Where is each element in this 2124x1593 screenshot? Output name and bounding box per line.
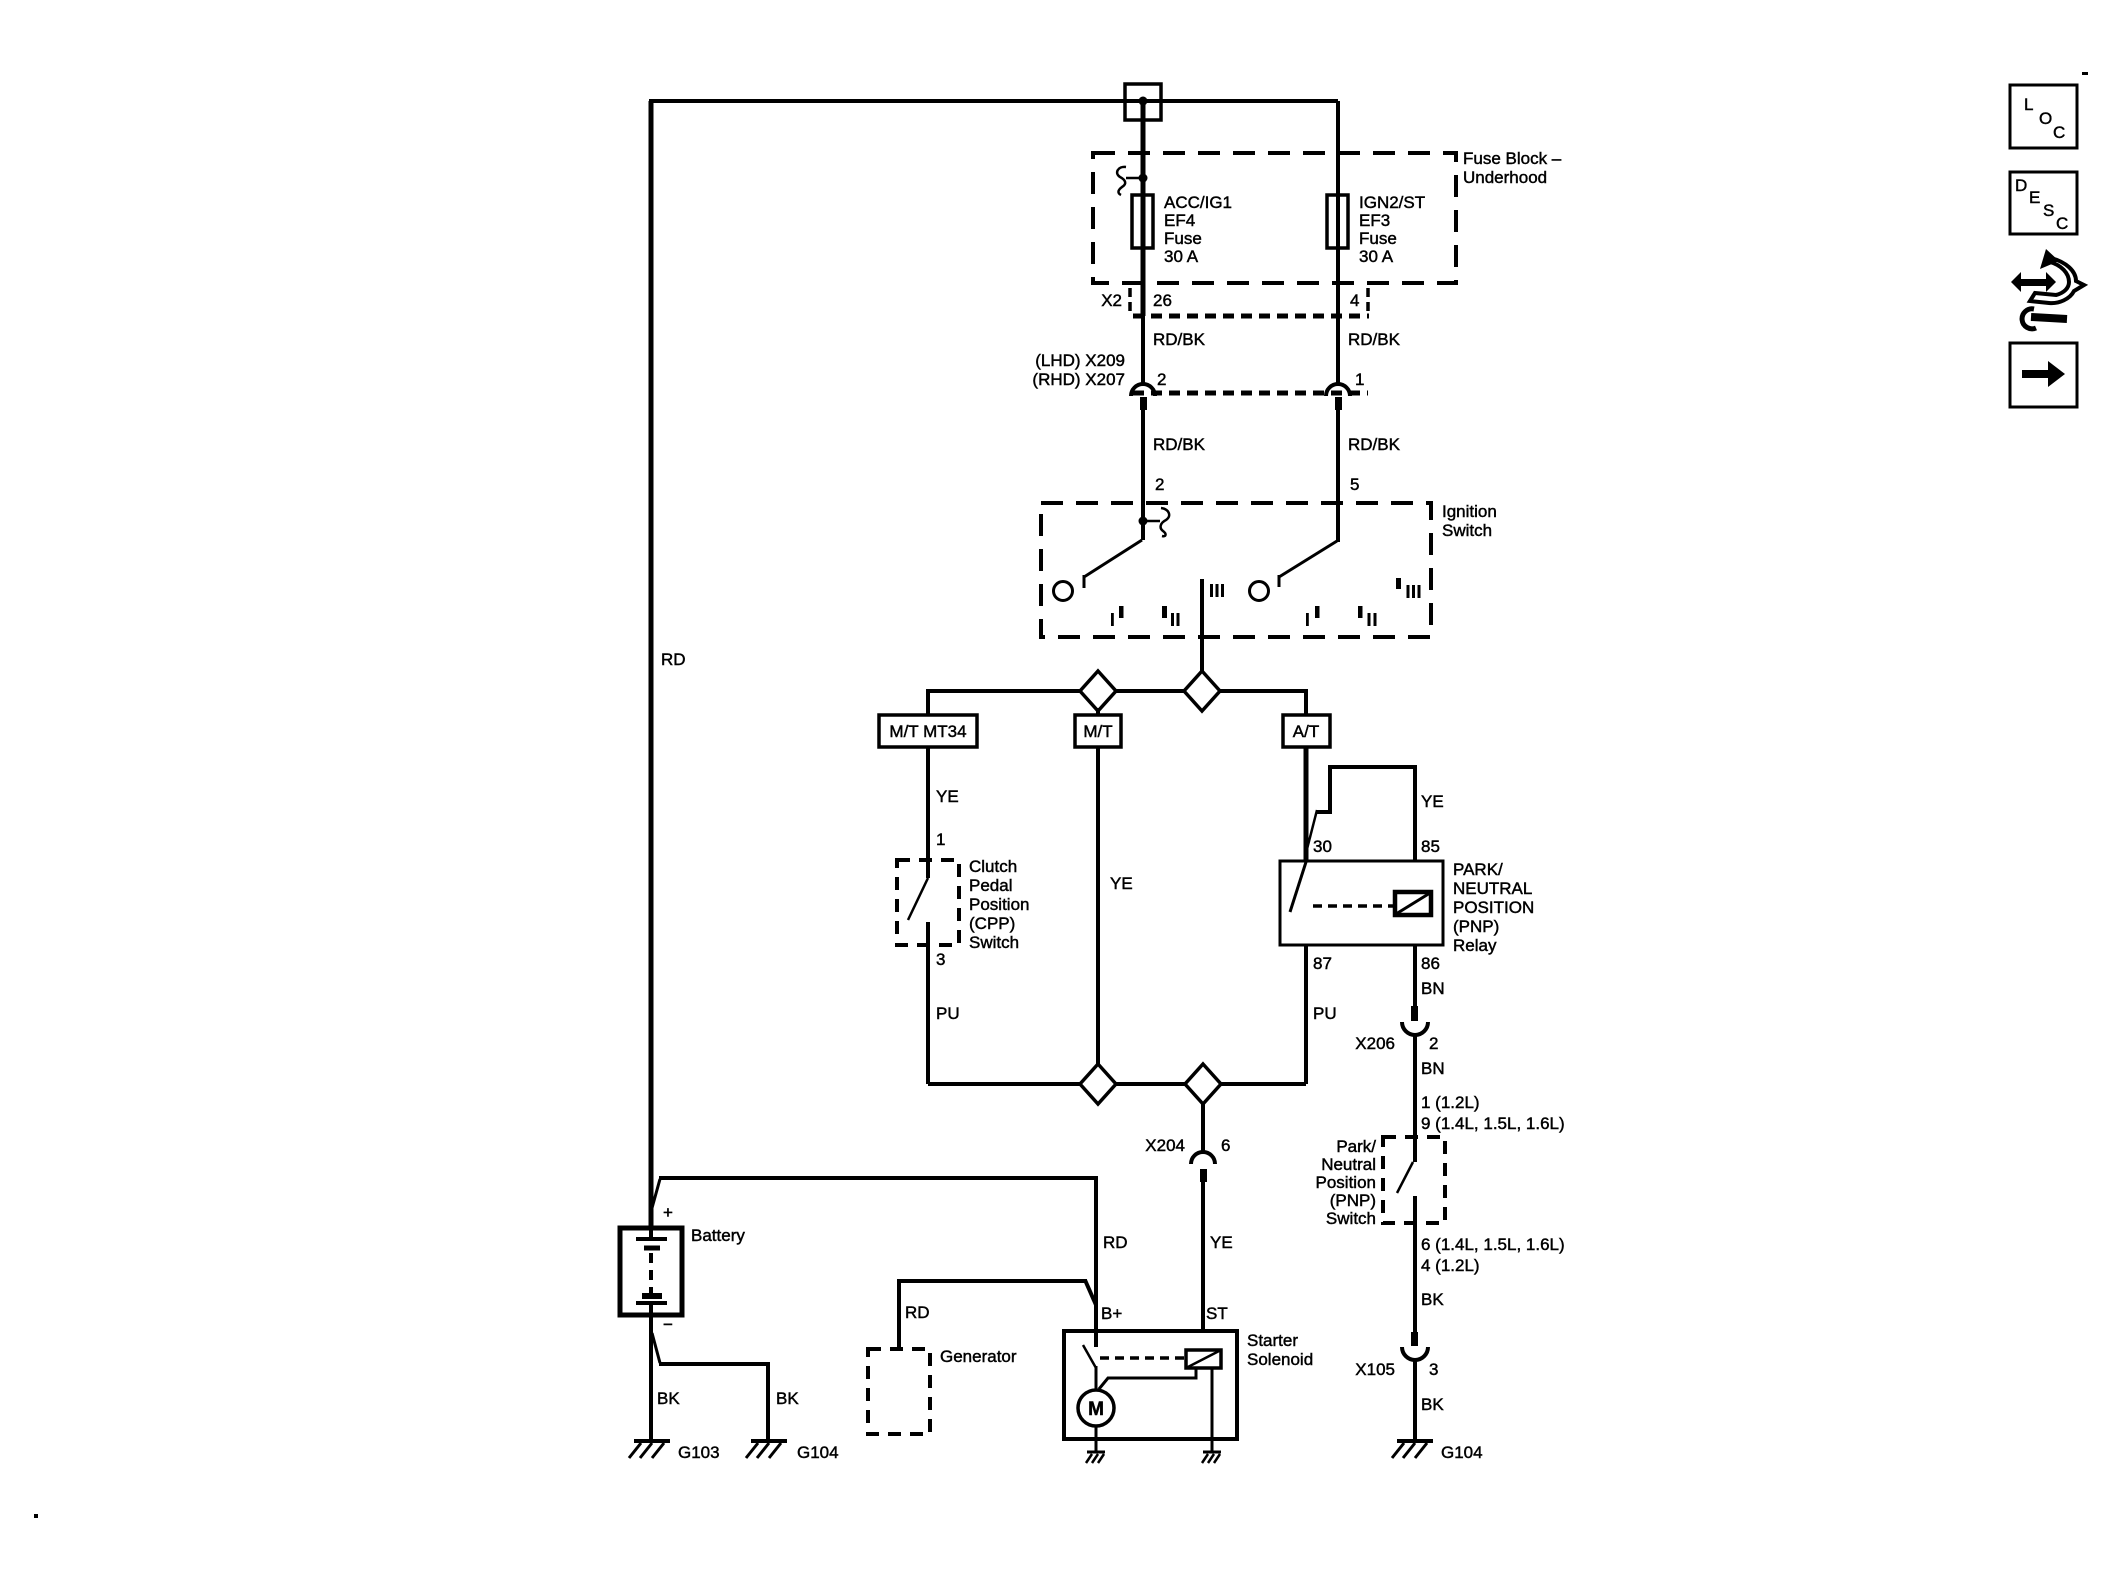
ignition switch dashed box (1041, 503, 1431, 637)
svg-text:30 A: 30 A (1359, 247, 1394, 266)
svg-text:RD/BK: RD/BK (1153, 330, 1206, 349)
node diamond junction upper right (1184, 671, 1220, 711)
svg-text:30: 30 (1313, 837, 1332, 856)
ignition position marks I II III right (1306, 578, 1421, 626)
svg-text:Solenoid: Solenoid (1247, 1350, 1313, 1369)
wire BN from X206 to PNP switch (1413, 1035, 1417, 1162)
icon LOC box (2010, 85, 2077, 148)
PNP relay switch blade (1290, 862, 1306, 912)
node diamond junction lower right (1185, 1064, 1221, 1104)
svg-text:RD: RD (661, 650, 686, 669)
svg-text:Fuse: Fuse (1359, 229, 1397, 248)
icon swap-tool (2011, 249, 2084, 329)
fuse EF3 IGN2/ST 30A (1327, 195, 1348, 248)
park/neutral position PNP relay box (1280, 861, 1443, 945)
wire ignition switch output (1200, 579, 1204, 672)
svg-text:Starter: Starter (1247, 1331, 1298, 1350)
wire PU from CPP switch pin 3 to lower bus (926, 922, 930, 1084)
svg-text:M/T MT34: M/T MT34 (889, 722, 966, 741)
wire PU from relay pin 87 to lower bus (1304, 945, 1308, 1084)
svg-text:Relay: Relay (1453, 936, 1497, 955)
svg-text:C: C (2056, 214, 2068, 233)
wire YE middle M/T branch (1096, 747, 1100, 1084)
connector X206 (1411, 1006, 1418, 1021)
junction box S101 (1125, 84, 1161, 120)
svg-text:Position: Position (1316, 1173, 1376, 1192)
svg-text:X105: X105 (1355, 1360, 1395, 1379)
wire solenoid coil to ground (1211, 1368, 1214, 1452)
svg-text:O: O (2039, 109, 2052, 128)
connector X209 terminal left (1131, 384, 1155, 396)
svg-text:Switch: Switch (1326, 1209, 1376, 1228)
starter motor M (1078, 1390, 1114, 1426)
svg-text:Ignition: Ignition (1442, 502, 1497, 521)
svg-text:M: M (1088, 1399, 1104, 1420)
wire starter motor to ground (1095, 1426, 1098, 1452)
svg-text:Position: Position (969, 895, 1029, 914)
svg-text:BK: BK (1421, 1395, 1444, 1414)
starter solenoid contact blade (1094, 1331, 1098, 1347)
svg-text:1 (1.2L): 1 (1.2L) (1421, 1093, 1480, 1112)
svg-text:G103: G103 (678, 1443, 720, 1462)
svg-text:Underhood: Underhood (1463, 168, 1547, 187)
fusible element symbol (1117, 167, 1126, 195)
svg-text:Battery: Battery (691, 1226, 745, 1245)
ground G104 right (1392, 1441, 1483, 1462)
svg-text:RD: RD (1103, 1233, 1128, 1252)
svg-text:(LHD) X209: (LHD) X209 (1035, 351, 1125, 370)
svg-text:PARK/: PARK/ (1453, 860, 1503, 879)
wire RD/BK to ignition switch pin 2 (1141, 410, 1145, 540)
wire RD/BK from fuse EF4 pin 26 (1141, 316, 1145, 384)
svg-text:C: C (2053, 123, 2065, 142)
svg-text:BN: BN (1421, 1059, 1445, 1078)
connector X105 (1411, 1332, 1418, 1346)
wire YE tap to relay coil pin 85 (1317, 767, 1415, 894)
svg-text:87: 87 (1313, 954, 1332, 973)
svg-text:5: 5 (1350, 475, 1359, 494)
icon DESC box (2010, 172, 2077, 234)
svg-text:1: 1 (1355, 370, 1364, 389)
svg-text:M/T: M/T (1083, 722, 1112, 741)
svg-text:YE: YE (1110, 874, 1133, 893)
svg-text:B+: B+ (1101, 1304, 1122, 1323)
wire BK battery negative to grounds (649, 1315, 653, 1441)
connector X209 dashed line (1133, 391, 1368, 396)
svg-text:2: 2 (1429, 1034, 1438, 1053)
ground starter motor (1086, 1452, 1105, 1463)
wire BK from X105 to ground G104 (1413, 1360, 1417, 1441)
wire YE from lower bus to X204 (1201, 1102, 1205, 1152)
svg-text:6 (1.4L, 1.5L, 1.6L): 6 (1.4L, 1.5L, 1.6L) (1421, 1235, 1565, 1254)
wire BN from relay pin 86 (1413, 945, 1417, 1007)
wire feed to fuse EF4 (1141, 101, 1146, 316)
svg-text:E: E (2029, 188, 2040, 207)
svg-text:ST: ST (1206, 1304, 1228, 1323)
svg-text:ACC/IG1: ACC/IG1 (1164, 193, 1232, 212)
svg-text:(PNP): (PNP) (1330, 1191, 1376, 1210)
wire RD/BK to ignition switch pin 5 (1336, 410, 1340, 542)
CPP switch blade (908, 878, 928, 920)
svg-text:EF4: EF4 (1164, 211, 1195, 230)
wire RD battery positive feed to B+ (659, 1178, 1096, 1348)
starter solenoid hold wire (1099, 1368, 1196, 1389)
node diamond junction upper left (1080, 671, 1116, 711)
svg-text:BK: BK (776, 1389, 799, 1408)
starter solenoid dashed actuator line (1100, 1356, 1184, 1360)
ground starter solenoid (1202, 1452, 1221, 1463)
svg-text:3: 3 (936, 950, 945, 969)
svg-text:Clutch: Clutch (969, 857, 1017, 876)
svg-text:RD/BK: RD/BK (1348, 330, 1401, 349)
clutch pedal position CPP switch dashed box (897, 860, 959, 945)
svg-text:Generator: Generator (940, 1347, 1017, 1366)
generator dashed box (868, 1349, 930, 1434)
svg-text:85: 85 (1421, 837, 1440, 856)
wire RD trunk (battery feed, left vertical) (649, 101, 654, 1228)
stray mark top right (2082, 72, 2088, 75)
branch box M/T (1075, 715, 1121, 747)
svg-text:Fuse: Fuse (1164, 229, 1202, 248)
svg-text:26: 26 (1153, 291, 1172, 310)
svg-text:X206: X206 (1355, 1034, 1395, 1053)
svg-text:PU: PU (936, 1004, 960, 1023)
svg-text:RD/BK: RD/BK (1348, 435, 1401, 454)
svg-text:86: 86 (1421, 954, 1440, 973)
svg-text:Fuse Block –: Fuse Block – (1463, 149, 1562, 168)
svg-text:IGN2/ST: IGN2/ST (1359, 193, 1425, 212)
svg-text:Neutral: Neutral (1321, 1155, 1376, 1174)
svg-text:1: 1 (936, 830, 945, 849)
svg-text:PU: PU (1313, 1004, 1337, 1023)
ground G104 left (746, 1441, 839, 1462)
svg-text:BK: BK (657, 1389, 680, 1408)
PNP relay coil (1395, 892, 1431, 915)
wire top horizontal feed (649, 99, 1338, 103)
ignition switch contact blade right (pin 5) (1279, 541, 1337, 577)
battery (620, 1203, 745, 1334)
PNP switch blade (1397, 1162, 1413, 1193)
svg-text:4: 4 (1350, 291, 1359, 310)
svg-text:Park/: Park/ (1336, 1137, 1376, 1156)
wire feed to fuse EF3 (1336, 101, 1340, 316)
park/neutral position PNP switch dashed box (1383, 1137, 1445, 1223)
svg-text:Pedal: Pedal (969, 876, 1012, 895)
svg-text:30 A: 30 A (1164, 247, 1199, 266)
svg-text:L: L (2024, 95, 2033, 114)
svg-text:−: − (663, 1315, 673, 1334)
svg-text:RD: RD (905, 1303, 930, 1322)
svg-text:4 (1.2L): 4 (1.2L) (1421, 1256, 1480, 1275)
svg-text:POSITION: POSITION (1453, 898, 1534, 917)
svg-text:6: 6 (1221, 1136, 1230, 1155)
branch box A/T (1283, 715, 1330, 747)
svg-text:G104: G104 (1441, 1443, 1483, 1462)
wire BK from PNP switch to X105 (1413, 1196, 1417, 1332)
wire YE from X204 to starter solenoid ST (1201, 1182, 1205, 1352)
ignition switch key actuator left (1139, 517, 1148, 526)
connector X204 (1191, 1152, 1215, 1164)
svg-text:9 (1.4L, 1.5L, 1.6L): 9 (1.4L, 1.5L, 1.6L) (1421, 1114, 1565, 1133)
svg-text:BK: BK (1421, 1290, 1444, 1309)
wire RD generator output (899, 1281, 1087, 1349)
fuse EF4 ACC/IG1 30A (1132, 195, 1153, 248)
wire stub diamond to M/T box (1096, 708, 1100, 716)
svg-text:X204: X204 (1145, 1136, 1185, 1155)
starter solenoid coil (1186, 1350, 1221, 1368)
svg-text:RD/BK: RD/BK (1153, 435, 1206, 454)
svg-text:2: 2 (1155, 475, 1164, 494)
svg-text:YE: YE (1421, 792, 1444, 811)
node junction dot (1139, 97, 1148, 106)
fuse block underhood dashed box (1093, 153, 1456, 283)
svg-text:2: 2 (1157, 370, 1166, 389)
ignition switch contact circle right (1250, 582, 1269, 601)
svg-text:EF3: EF3 (1359, 211, 1390, 230)
connector X209 terminal right (1326, 384, 1350, 396)
wire upper bus (928, 691, 1306, 715)
svg-text:Switch: Switch (1442, 521, 1492, 540)
svg-text:X2: X2 (1101, 291, 1122, 310)
icon next-arrow box (2010, 343, 2077, 407)
connector X2 dashed line (1133, 314, 1369, 319)
svg-text:(PNP): (PNP) (1453, 917, 1499, 936)
svg-text:+: + (663, 1203, 673, 1222)
svg-text:S: S (2043, 201, 2054, 220)
svg-text:BN: BN (1421, 979, 1445, 998)
svg-text:NEUTRAL: NEUTRAL (1453, 879, 1532, 898)
svg-text:(CPP): (CPP) (969, 914, 1015, 933)
stray mark bottom left (34, 1514, 38, 1518)
svg-text:Switch: Switch (969, 933, 1019, 952)
svg-text:A/T: A/T (1293, 722, 1319, 741)
ignition position marks I II III left (1111, 584, 1224, 626)
ignition switch contact blade left (pin 2) (1084, 540, 1142, 577)
svg-text:YE: YE (936, 787, 959, 806)
svg-text:YE: YE (1210, 1233, 1233, 1252)
wire RD/BK from fuse EF3 pin 4 (1336, 316, 1340, 384)
starter solenoid box (1064, 1331, 1237, 1439)
ground G103 (629, 1441, 720, 1462)
node diamond junction lower left (1080, 1064, 1116, 1104)
svg-text:D: D (2015, 176, 2027, 195)
branch box M/T MT34 (879, 715, 977, 747)
svg-text:3: 3 (1429, 1360, 1438, 1379)
svg-text:(RHD) X207: (RHD) X207 (1032, 370, 1125, 389)
PNP relay dashed actuator line (1313, 904, 1393, 908)
wire A/T branch to relay pin 30 (1304, 747, 1309, 862)
ignition switch contact circle left (1054, 582, 1073, 601)
wire lower bus (928, 1082, 1306, 1086)
svg-text:G104: G104 (797, 1443, 839, 1462)
wire YE from MT34 to CPP switch (926, 747, 930, 878)
